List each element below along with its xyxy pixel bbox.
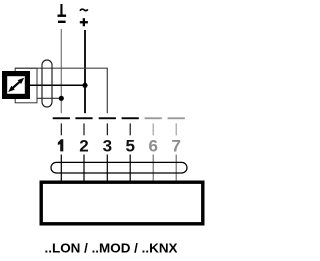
svg-text:7: 7	[171, 137, 180, 156]
svg-text:3: 3	[103, 137, 112, 156]
svg-text:2: 2	[79, 137, 88, 156]
svg-text:..LON / ..MOD / ..KNX: ..LON / ..MOD / ..KNX	[45, 240, 178, 255]
svg-text:5: 5	[125, 137, 134, 156]
svg-text:6: 6	[148, 137, 157, 156]
